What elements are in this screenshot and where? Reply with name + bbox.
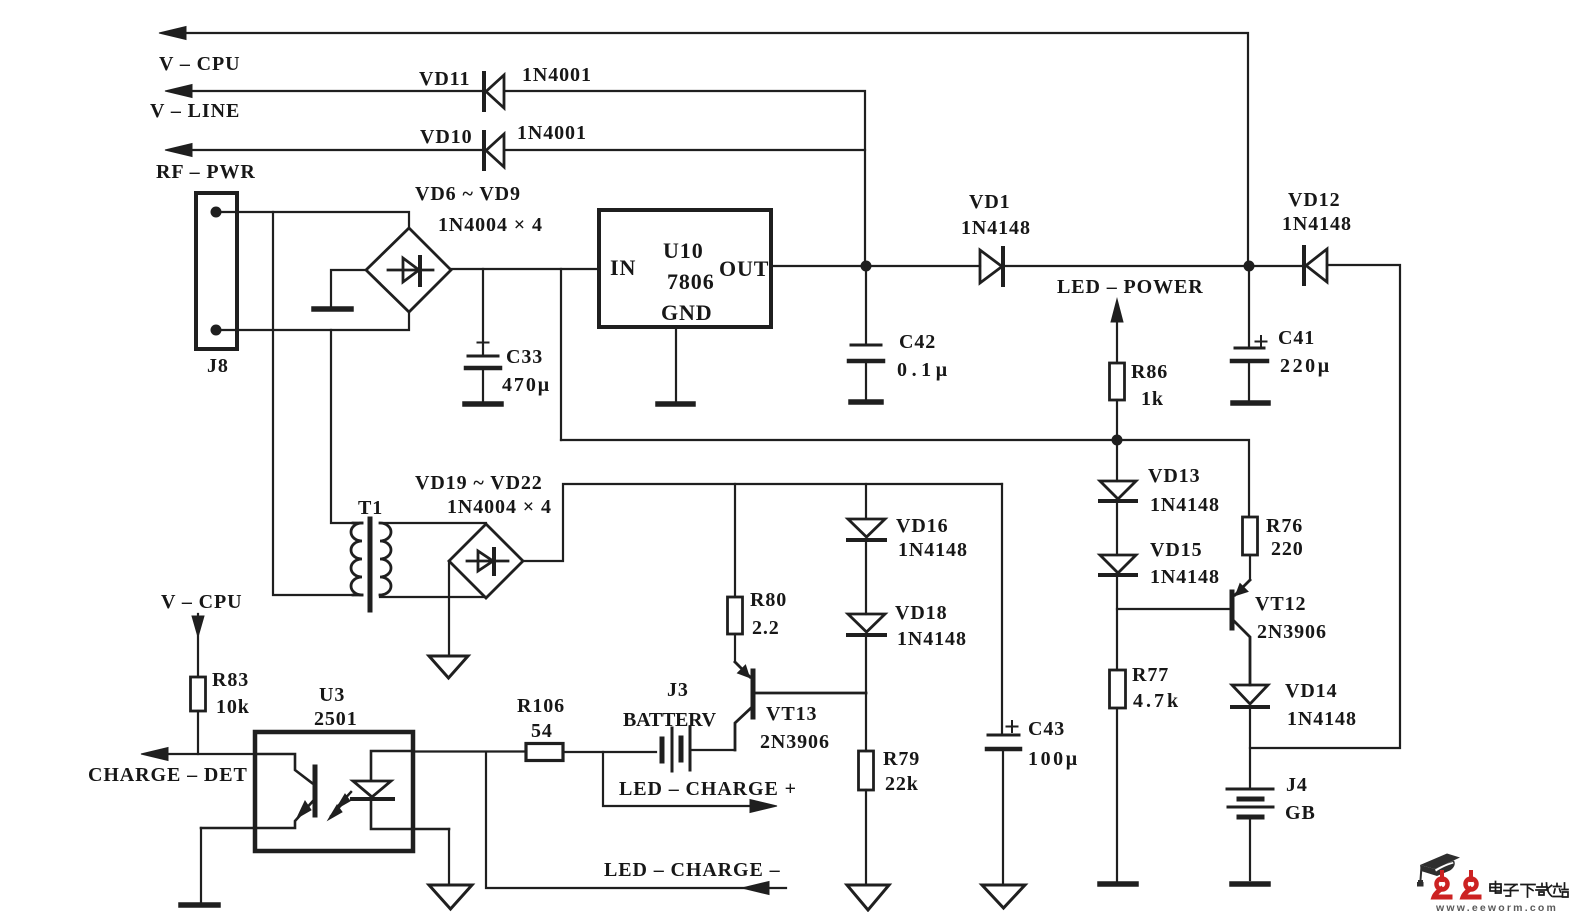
wire R76 to VT12 emitter — [1249, 555, 1251, 580]
svg-text:www.eeworm.com: www.eeworm.com — [1435, 902, 1558, 912]
svg-text:1N4148: 1N4148 — [961, 217, 1031, 239]
svg-text:2N3906: 2N3906 — [760, 731, 830, 753]
resistor R86 1k — [1110, 363, 1125, 400]
ground bar (R77) — [1100, 881, 1136, 887]
svg-text:2.2: 2.2 — [752, 617, 780, 639]
ground bar (C33) — [465, 401, 501, 407]
svg-text:100μ: 100μ — [1028, 748, 1078, 770]
svg-text:C42: C42 — [899, 331, 936, 353]
svg-text:T1: T1 — [358, 497, 383, 519]
svg-text:2501: 2501 — [314, 708, 358, 730]
svg-text:CHARGE – DET: CHARGE – DET — [88, 764, 248, 786]
wire VD1 to VD12 node — [1003, 265, 1304, 267]
svg-text:1N4001: 1N4001 — [517, 122, 587, 144]
svg-text:R80: R80 — [750, 589, 787, 611]
diode VD13 1N4148 — [1100, 481, 1136, 501]
ground (bridge2) — [429, 656, 468, 678]
wire J8 top pin to bridge — [216, 212, 409, 228]
resistor R83 10k — [191, 677, 206, 711]
wire bridge2 output to upper rail2 — [523, 484, 1002, 561]
capacitor C41 220u — [1232, 266, 1267, 400]
connector J8 — [196, 193, 237, 349]
svg-text:1N4001: 1N4001 — [522, 64, 592, 86]
svg-text:C33: C33 — [506, 346, 543, 368]
svg-text:VD11: VD11 — [419, 68, 470, 90]
svg-text:C43: C43 — [1028, 718, 1065, 740]
wire R77 down — [1116, 708, 1118, 881]
node rail/R86 junction — [1112, 435, 1123, 446]
wire bridge1 left vertex to ground — [331, 270, 366, 306]
svg-text:C41: C41 — [1278, 327, 1315, 349]
node V-CPU feed wire — [159, 27, 1248, 267]
wire R83 to CHARGE-DET line — [197, 711, 199, 754]
diode VD15 1N4148 — [1100, 555, 1136, 575]
diode VD16 1N4148 — [848, 519, 885, 540]
svg-text:LED – POWER: LED – POWER — [1057, 276, 1204, 298]
transformer T1 core — [368, 519, 373, 610]
svg-text:VD19 ~ VD22: VD19 ~ VD22 — [415, 472, 543, 494]
black site name glyphs — [1490, 882, 1568, 898]
node VD12/C41 junction — [1244, 261, 1255, 272]
svg-text:1N4004 × 4: 1N4004 × 4 — [438, 214, 543, 236]
svg-text:470μ: 470μ — [502, 374, 550, 396]
wire IN-node down to low rail — [560, 269, 562, 440]
bridge rectifier VD6~VD9 — [366, 228, 451, 312]
svg-text:U3: U3 — [319, 684, 345, 706]
wire T1 secondary to bridge2 — [380, 523, 486, 597]
svg-text:R79: R79 — [883, 748, 920, 770]
resistor R76 220 — [1243, 517, 1258, 555]
svg-text:R77: R77 — [1132, 664, 1169, 686]
svg-text:LED – CHARGE –: LED – CHARGE – — [604, 859, 781, 881]
diode VD12 1N4148 — [1304, 247, 1327, 284]
svg-text:0.1μ: 0.1μ — [897, 359, 948, 381]
wire VD18 to R79 — [865, 637, 867, 751]
resistor R77 4.7k — [1110, 670, 1126, 708]
diode VD18 1N4148 — [848, 614, 885, 635]
ground (U3 right) — [429, 885, 472, 909]
watermark eeworm logo — [1417, 854, 1568, 912]
resistor R80 2.2 — [728, 597, 743, 634]
capacitor C42 0.1u — [849, 266, 883, 399]
net LED-CHARGE- arrow — [486, 752, 786, 895]
svg-text:RF – PWR: RF – PWR — [156, 161, 256, 183]
svg-text:V – CPU: V – CPU — [161, 591, 243, 613]
svg-text:V – CPU: V – CPU — [159, 53, 241, 75]
capacitor C33 470u — [466, 269, 500, 401]
wire R86 to rail — [1116, 400, 1118, 440]
svg-text:J8: J8 — [207, 355, 229, 377]
svg-text:VD15: VD15 — [1150, 539, 1203, 561]
wire VD15 to R77 and base node — [1116, 577, 1118, 670]
svg-text:220μ: 220μ — [1280, 355, 1330, 377]
wire V-LINE rail — [165, 85, 865, 267]
bridge rectifier VD19~VD22 — [449, 524, 523, 598]
ground bar (J4) — [1232, 881, 1268, 887]
svg-text:1N4148: 1N4148 — [1287, 708, 1357, 730]
svg-text:R106: R106 — [517, 695, 565, 717]
svg-text:U10: U10 — [663, 238, 704, 263]
svg-text:R83: R83 — [212, 669, 249, 691]
svg-text:220: 220 — [1271, 538, 1304, 560]
ground bar (C41) — [1233, 400, 1268, 406]
wire bridge1 output to U10 IN — [451, 268, 599, 270]
svg-text:J4: J4 — [1286, 774, 1308, 796]
wire rail2 to R80 — [734, 484, 736, 597]
wire J8 top to T1 primary bottom — [273, 212, 353, 595]
transistor VT12 2N3906 — [1232, 580, 1250, 685]
net CHARGE-DET arrow — [141, 748, 256, 761]
svg-text:V – LINE: V – LINE — [150, 100, 240, 122]
wire bridge2 left vertex to ground — [448, 561, 450, 654]
svg-text:4.7k: 4.7k — [1133, 690, 1179, 712]
svg-text:R76: R76 — [1266, 515, 1303, 537]
svg-text:R86: R86 — [1131, 361, 1168, 383]
svg-text:VD18: VD18 — [895, 602, 948, 624]
svg-text:1N4148: 1N4148 — [1150, 566, 1220, 588]
svg-text:2N3906: 2N3906 — [1257, 621, 1327, 643]
wire R106 to J3 — [563, 751, 656, 753]
svg-text:BATTERV: BATTERV — [623, 709, 717, 731]
ground (C43) — [982, 885, 1025, 908]
diode VD1 1N4148 — [980, 248, 1003, 285]
diode VD10 1N4001 — [484, 132, 504, 169]
wire RF-PWR rail — [165, 144, 865, 157]
wire J8 bottom to T1 primary top — [331, 330, 353, 523]
wire low rail — [561, 440, 1249, 517]
svg-text:VD13: VD13 — [1148, 465, 1201, 487]
svg-text:1N4148: 1N4148 — [1282, 213, 1352, 235]
wire rail2 to VD16 — [865, 484, 867, 518]
optocoupler U3 2501 — [201, 732, 449, 851]
svg-text:1N4148: 1N4148 — [1150, 494, 1220, 516]
svg-text:7806: 7806 — [667, 269, 715, 294]
svg-text:OUT: OUT — [719, 256, 769, 281]
red chongchong characters — [1434, 872, 1479, 897]
wire VD14 to J4 — [1249, 709, 1251, 788]
node V-CPU lower arrow — [192, 614, 204, 677]
transformer T1 primary — [351, 523, 362, 595]
wire R79 to ground — [865, 790, 867, 883]
svg-text:1N4148: 1N4148 — [898, 539, 968, 561]
svg-text:22k: 22k — [885, 773, 919, 795]
ground bar (C42) — [851, 399, 881, 405]
wire U10 OUT to VD1 — [771, 265, 980, 267]
svg-text:1N4004 × 4: 1N4004 × 4 — [447, 496, 552, 518]
capacitor C43 100u — [987, 721, 1020, 883]
net LED-CHARGE+ arrow — [603, 752, 777, 813]
wire VD12 to right drop — [1250, 265, 1400, 748]
wire U3 LED cathode to ground — [448, 829, 450, 883]
wire R80 to VT13 emitter — [734, 634, 736, 662]
wire U3 anode pin to R106 — [413, 750, 526, 752]
svg-text:VD16: VD16 — [896, 515, 949, 537]
svg-text:VD6 ~ VD9: VD6 ~ VD9 — [415, 183, 521, 205]
ground (R79) — [847, 885, 889, 910]
ground bar (U10 GND) — [658, 401, 693, 407]
svg-text:VT12: VT12 — [1255, 593, 1306, 615]
svg-text:54: 54 — [531, 720, 553, 742]
svg-text:VD10: VD10 — [420, 126, 473, 148]
wire J8 bottom pin to bridge — [216, 312, 409, 330]
svg-text:1N4148: 1N4148 — [897, 628, 967, 650]
svg-text:GB: GB — [1285, 802, 1316, 824]
wire rail2 to C43 — [1001, 484, 1003, 734]
node C42/VD11 junction — [861, 261, 872, 272]
ground bar (U3 left) — [181, 902, 218, 908]
resistor R106 54 — [526, 744, 563, 761]
svg-text:VD12: VD12 — [1288, 189, 1341, 211]
diode VD14 1N4148 — [1232, 685, 1268, 707]
battery J3 BATTERV — [662, 727, 735, 771]
svg-text:10k: 10k — [216, 696, 250, 718]
svg-text:VT13: VT13 — [766, 703, 817, 725]
svg-text:VD14: VD14 — [1285, 680, 1338, 702]
svg-text:LED – CHARGE +: LED – CHARGE + — [619, 778, 797, 800]
wire VD16 to VD18 — [865, 542, 867, 614]
svg-text:GND: GND — [661, 300, 713, 325]
resistor R79 22k — [859, 751, 874, 790]
node LED-POWER arrow — [1111, 299, 1123, 363]
transformer T1 secondary — [380, 523, 391, 595]
wire U3 pin4 to ground bar — [200, 828, 202, 902]
svg-text:1k: 1k — [1141, 388, 1164, 410]
svg-text:J3: J3 — [667, 679, 689, 701]
regulator U10 7806 — [599, 210, 771, 401]
wire rail to VD13 — [1116, 440, 1118, 481]
wire VD13 to VD15 — [1116, 503, 1118, 555]
battery J4 GB — [1227, 789, 1273, 880]
svg-text:VD1: VD1 — [969, 191, 1011, 213]
diode VD11 1N4001 — [484, 73, 504, 110]
wire base VT12 — [1117, 608, 1230, 610]
ground bar (bridge1) — [314, 306, 351, 312]
transistor VT13 2N3906 — [735, 662, 866, 750]
svg-text:IN: IN — [610, 255, 636, 280]
